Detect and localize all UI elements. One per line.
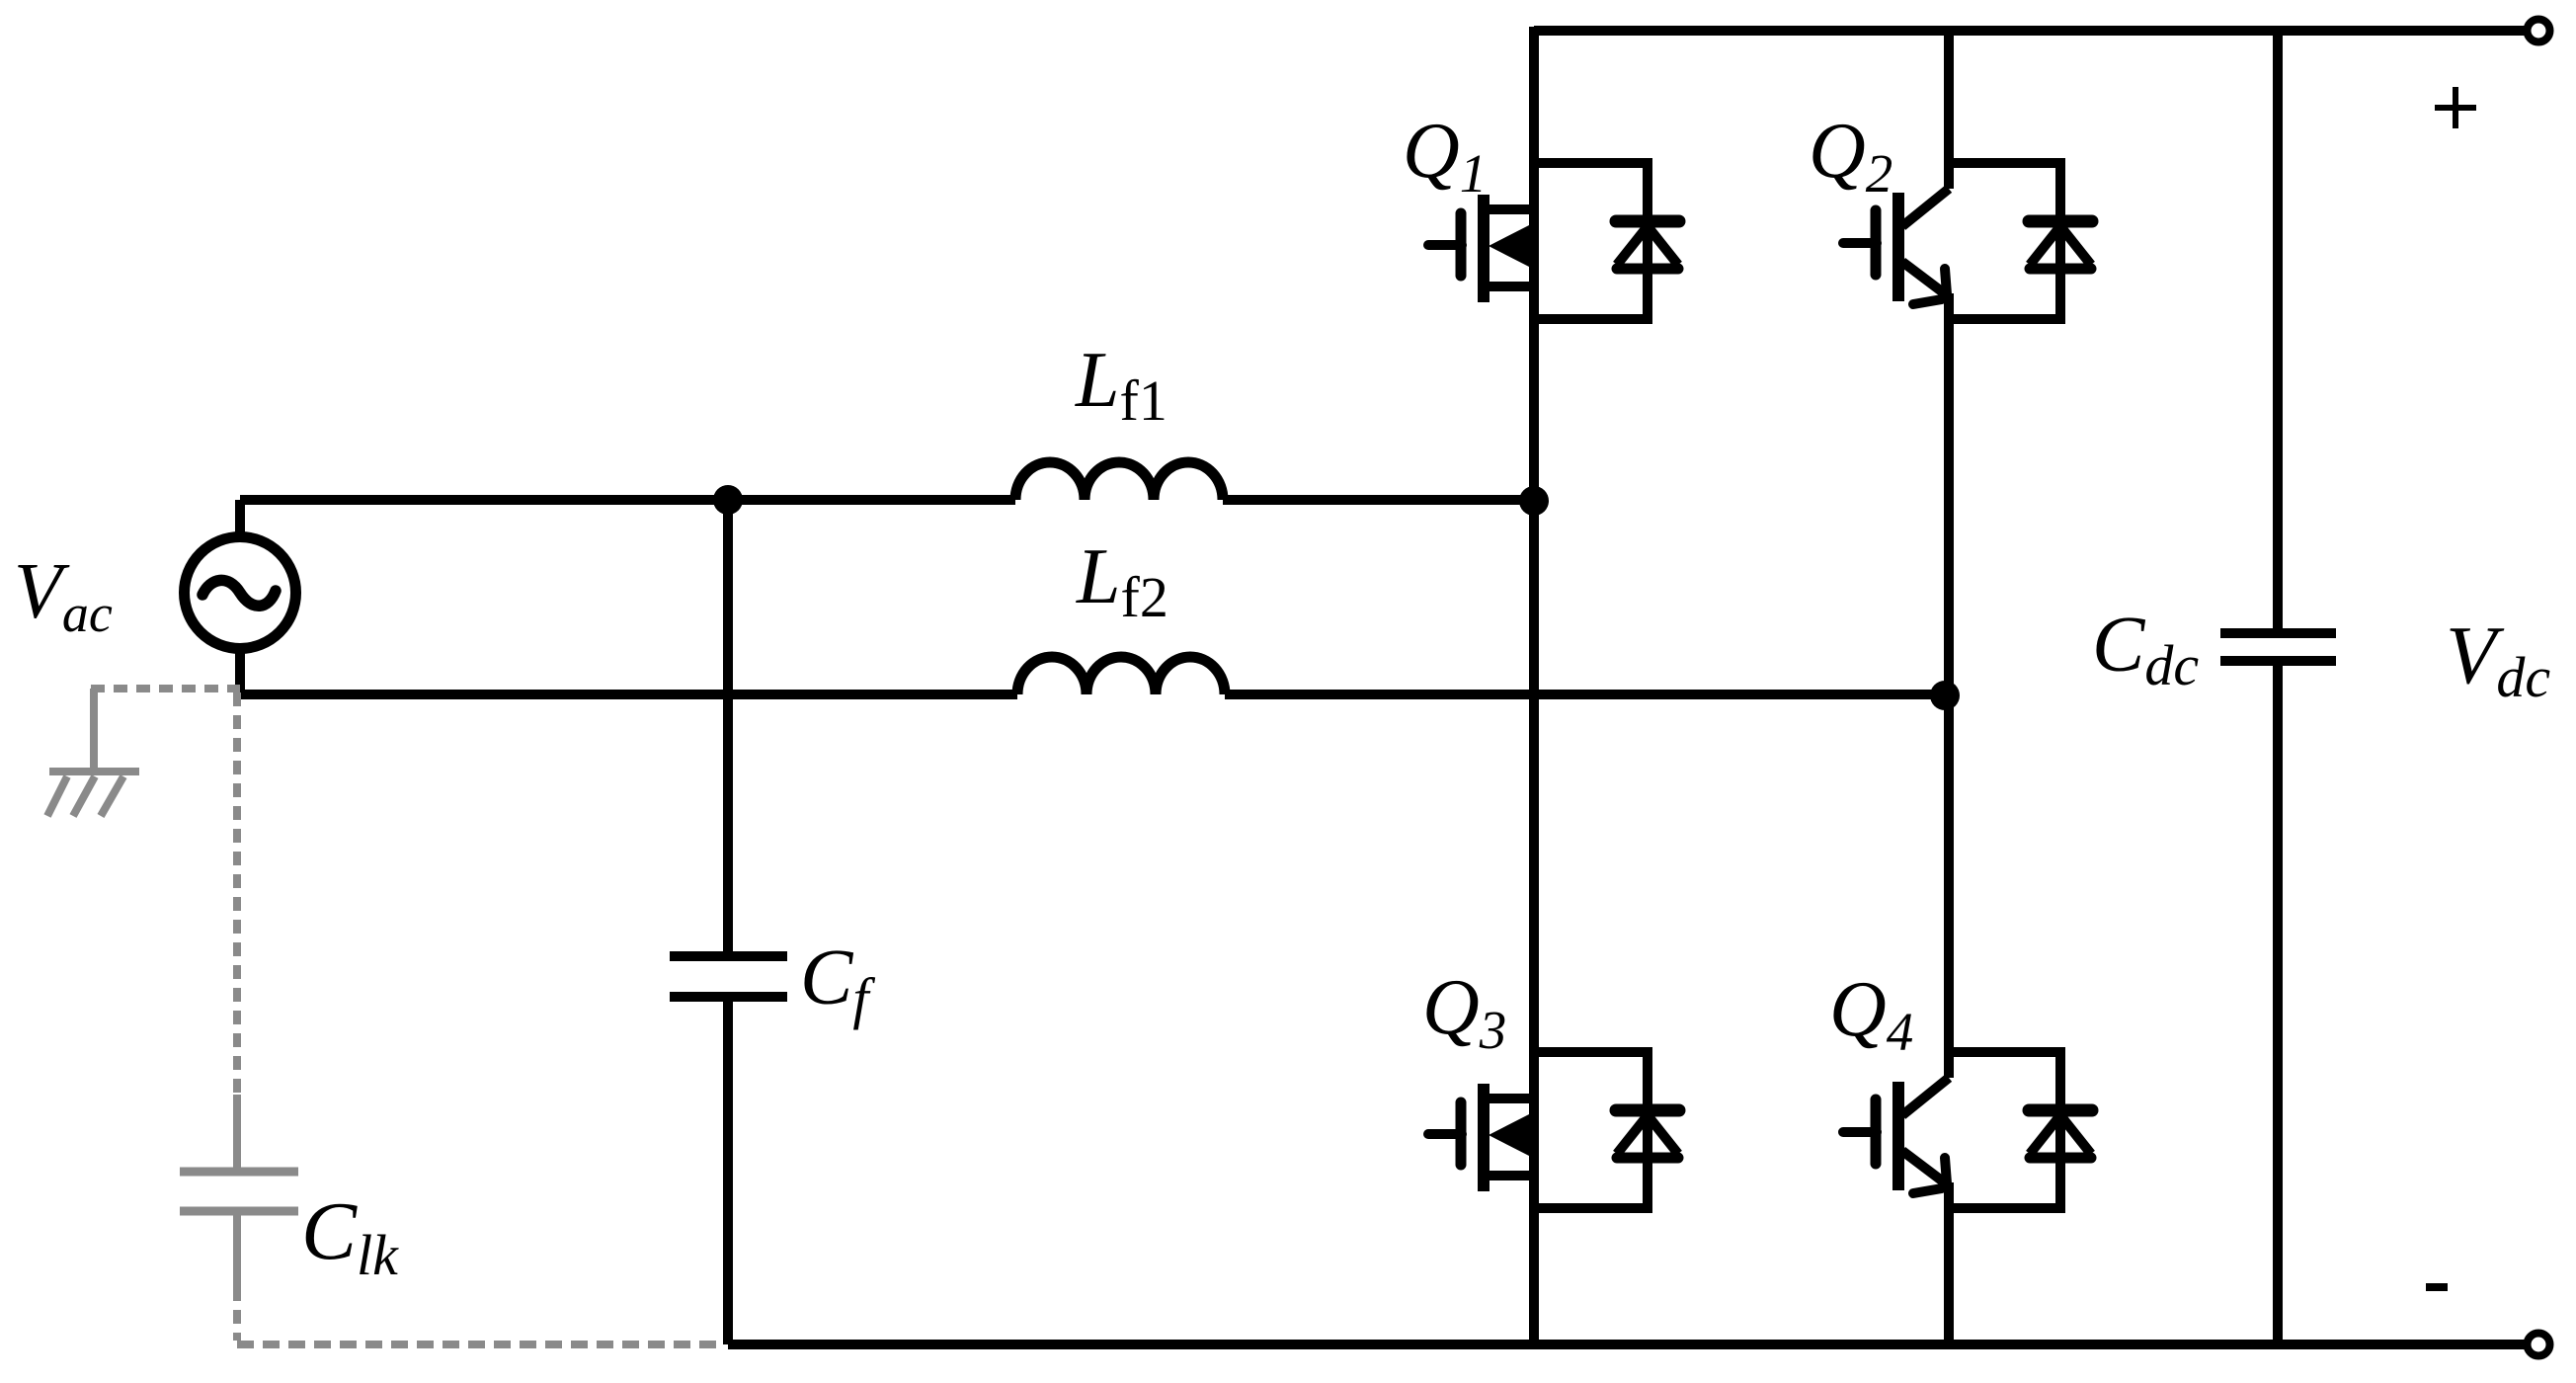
- label: [2426, 1283, 2448, 1291]
capacitor Clk (gray): [180, 1095, 298, 1287]
node - terminal (negative dc output): [2528, 1334, 2550, 1356]
transistor Q4 (IGBT, low-side right): [1843, 1078, 1949, 1193]
capacitor Cdc: [2220, 633, 2336, 661]
wire gray dashed earth path: [91, 689, 722, 1344]
wire Cf branch: [723, 500, 733, 1344]
transistor Q1 (MOSFET, high-side left): [1428, 195, 1534, 302]
wire right bridge leg (Q2/Q4): [1944, 27, 1954, 1344]
inductor Lf2: [1017, 657, 1225, 694]
capacitor Cf: [670, 956, 787, 997]
voltage source Vac: [185, 500, 296, 695]
wire ac bottom line: [240, 690, 1945, 699]
node junction dot C (Lf2 / right leg midpoint): [1930, 681, 1960, 710]
node junction dot B (Lf1 / left leg midpoint): [1519, 486, 1549, 516]
inductor Lf1: [1015, 462, 1223, 500]
wire bottom dc rail: [728, 1340, 2526, 1349]
diode D4 (antiparallel with Q4): [1949, 1052, 2092, 1208]
+ label: [2435, 87, 2476, 128]
wire ac top line: [240, 495, 1534, 505]
transistor Q2 (IGBT, high-side right): [1843, 189, 1949, 304]
node junction dot A (ac line / Cf): [713, 485, 743, 515]
diode D2 (antiparallel with Q2): [1949, 163, 2092, 319]
diode D1 (antiparallel with Q1): [1534, 163, 1679, 319]
node + terminal (positive dc output): [2528, 20, 2550, 42]
transistor Q3 (MOSFET, low-side left): [1428, 1084, 1534, 1191]
diode D3 (antiparallel with Q3): [1534, 1052, 1679, 1208]
wire dc capacitor branch: [2273, 31, 2283, 1344]
wire top dc rail: [1534, 26, 2526, 36]
ground (chassis, gray): [47, 689, 139, 816]
wire left bridge leg (Q1/Q3): [1529, 27, 1539, 1344]
